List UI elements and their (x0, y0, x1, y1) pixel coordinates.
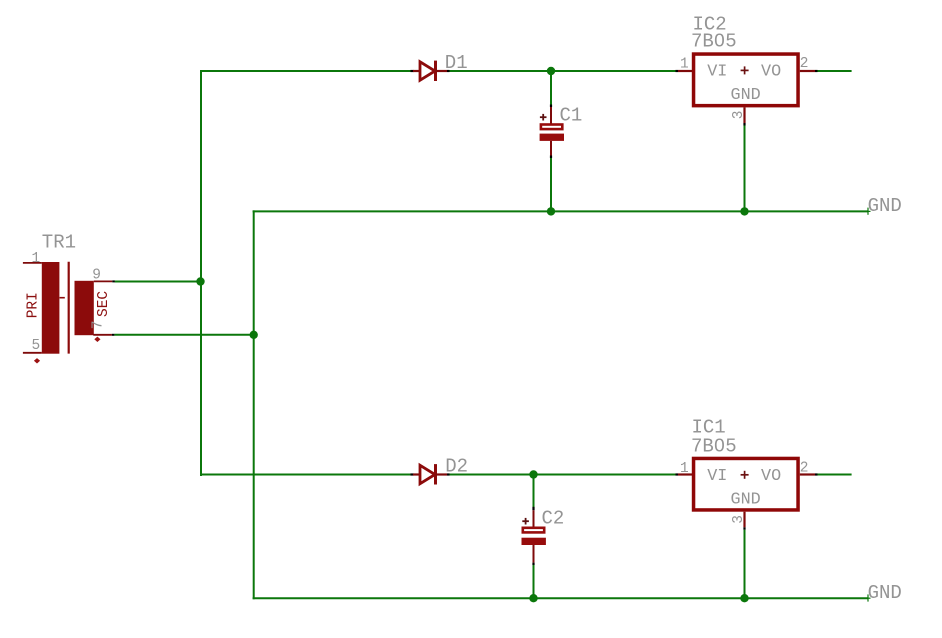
wire VCC1 output (818, 70, 852, 72)
svg-text:1: 1 (680, 56, 689, 72)
ic IC1 pin name GND (731, 491, 761, 510)
svg-text:SEC: SEC (96, 291, 112, 317)
svg-text:7: 7 (90, 321, 106, 330)
label D1 (445, 52, 468, 74)
transformer TR1 secondary polarity diamond (94, 337, 100, 342)
ic IC2 pin name VO (761, 63, 781, 82)
wire net N$2 bottom horizontal right segment (450, 474, 676, 476)
label cross GND top (868, 208, 871, 215)
pin number 2 IC2 (800, 56, 809, 72)
label cross GND bottom (868, 594, 871, 601)
transformer TR1 pin 1 (23, 262, 42, 264)
ic IC2 pin 3 stub (743, 107, 745, 125)
transformer TR1 SEC text (96, 291, 112, 317)
junction IC1 pin3 on GND bottom bus (740, 594, 748, 602)
capacitor C2 (522, 507, 546, 565)
junction C1 on GND bus (547, 207, 555, 215)
ic IC1 pin name VO (761, 467, 781, 486)
pin number 1 TR1 (32, 251, 41, 267)
transformer TR1 PRI text (26, 292, 42, 318)
ic IC1 pin 1 stub (676, 473, 693, 475)
svg-text:GND: GND (731, 491, 761, 510)
label C1 (560, 104, 583, 126)
ic IC1 plus sign (741, 471, 749, 479)
wire VCC2 output (818, 474, 852, 476)
svg-text:7B05: 7B05 (691, 435, 737, 457)
pin number 9 TR1 (92, 268, 101, 284)
wire IC2 pin3 to bus (744, 126, 746, 212)
pin number 3 IC2 (731, 111, 747, 120)
wire pin9 net (115, 281, 201, 283)
transformer TR1 core tap dash (60, 297, 65, 299)
transformer TR1 pin 9 (94, 280, 115, 282)
svg-text:VI: VI (707, 63, 727, 82)
transformer TR1 pin 5 (23, 352, 42, 354)
pin number 2 IC1 (800, 460, 809, 476)
net label GND top (868, 195, 902, 217)
ic IC2 pin 2 stub (800, 70, 818, 72)
wire IC1 pin3 to bus (744, 530, 746, 599)
ic IC1 pin name VI (707, 467, 727, 486)
diode D1 (411, 61, 450, 81)
svg-text:VO: VO (761, 63, 781, 82)
wire C2 branch upper (533, 476, 535, 508)
svg-text:C2: C2 (542, 508, 565, 530)
wire net N$2 bottom horizontal left segment (201, 474, 411, 476)
svg-text:1: 1 (680, 461, 689, 477)
svg-text:VI: VI (707, 467, 727, 486)
pin number 7 TR1 (90, 321, 106, 330)
label C2 (542, 508, 565, 530)
svg-text:GND: GND (731, 86, 761, 105)
junction IC2 pin3 on GND bus (740, 207, 748, 215)
svg-text:GND: GND (868, 582, 902, 604)
svg-text:5: 5 (32, 338, 41, 354)
wire left vertical x=201 (200, 70, 202, 476)
svg-text:7B05: 7B05 (691, 31, 737, 53)
capacitor C1 (540, 105, 564, 159)
svg-text:PRI: PRI (26, 292, 42, 318)
svg-text:GND: GND (868, 195, 902, 217)
ic IC1 pin 3 stub (743, 512, 745, 530)
junction pin7 to vertical (250, 331, 258, 339)
transformer TR1 core line (68, 262, 70, 354)
label IC1 (692, 417, 726, 439)
pin number 3 IC1 (731, 515, 747, 524)
svg-text:VO: VO (761, 467, 781, 486)
junction pin9 to vertical (196, 277, 204, 285)
junction C2 on GND bottom bus (529, 594, 537, 602)
transformer TR1 secondary winding (75, 281, 94, 335)
transformer TR1 primary winding (42, 262, 60, 354)
svg-text:2: 2 (800, 56, 809, 72)
ic IC2 pin name GND (731, 86, 761, 105)
transformer TR1 pin 7 (93, 334, 114, 336)
ic IC1 box (694, 458, 799, 510)
ic IC2 box (694, 54, 799, 106)
pin number 1 IC1 (680, 461, 689, 477)
value 7B05 IC1 (691, 435, 737, 457)
svg-text:2: 2 (800, 460, 809, 476)
ic IC2 pin name VI (707, 63, 727, 82)
label TR1 (42, 232, 76, 254)
svg-text:TR1: TR1 (42, 232, 76, 254)
svg-text:3: 3 (731, 111, 747, 120)
junction C1 tap on top wire (547, 67, 555, 75)
ic IC2 plus sign (741, 66, 749, 74)
wire GND bottom bus (253, 597, 868, 599)
label D2 (445, 456, 468, 478)
net label GND bottom (868, 582, 902, 604)
pin number 5 TR1 (32, 338, 41, 354)
wire vertical x=253.5 (253, 210, 255, 599)
ic IC2 pin 1 stub (676, 70, 693, 72)
pin number 1 IC2 (680, 56, 689, 72)
junction C2 tap on bottom wire (529, 470, 537, 478)
diode D2 (411, 464, 450, 484)
wire C1 branch upper (550, 72, 552, 105)
wire C2 branch lower (533, 565, 535, 599)
label IC2 (693, 14, 727, 36)
ic IC1 pin 2 stub (800, 473, 818, 475)
wire C1 branch lower (550, 158, 552, 212)
wire net N$1 top horizontal left segment (201, 70, 411, 72)
wire GND top bus (253, 210, 868, 212)
wire pin7 net (114, 334, 254, 336)
svg-text:C1: C1 (560, 104, 583, 126)
svg-text:1: 1 (32, 251, 41, 267)
transformer TR1 primary polarity diamond (34, 358, 40, 363)
wire net N$1 top horizontal right segment (450, 70, 676, 72)
svg-text:3: 3 (731, 515, 747, 524)
value 7B05 IC2 (691, 31, 737, 53)
svg-text:9: 9 (92, 268, 101, 284)
